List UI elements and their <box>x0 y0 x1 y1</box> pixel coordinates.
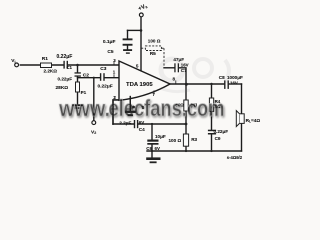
svg-text:2.2KΩ: 2.2KΩ <box>44 68 58 73</box>
svg-text:6: 6 <box>142 105 145 110</box>
svg-text:10μF: 10μF <box>155 134 166 139</box>
svg-text:16V: 16V <box>230 81 238 86</box>
svg-text:C8: C8 <box>219 75 225 80</box>
svg-text:C4: C4 <box>139 127 145 132</box>
svg-text:R5: R5 <box>150 51 156 57</box>
svg-text:C5: C5 <box>107 49 113 55</box>
svg-text:0.22μF: 0.22μF <box>98 84 113 90</box>
svg-text:C2: C2 <box>83 72 89 78</box>
svg-text:100 Ω: 100 Ω <box>169 138 182 143</box>
svg-text:0.22μF: 0.22μF <box>214 129 229 134</box>
svg-text:C3: C3 <box>100 66 106 72</box>
svg-text:www.: www. <box>58 96 110 121</box>
svg-text:0.1μF: 0.1μF <box>103 39 116 45</box>
svg-text:R3: R3 <box>191 137 197 142</box>
svg-text:V2: V2 <box>91 129 96 135</box>
svg-text:Vi: Vi <box>11 58 15 64</box>
svg-text:100 Ω: 100 Ω <box>148 39 161 44</box>
svg-text:P1: P1 <box>81 90 87 95</box>
svg-text:s-4Ω9/2: s-4Ω9/2 <box>227 155 243 160</box>
svg-text:TDA 1905: TDA 1905 <box>126 82 153 88</box>
svg-text:5: 5 <box>136 63 139 68</box>
svg-text:C9: C9 <box>215 136 221 141</box>
svg-text:R1: R1 <box>42 56 48 62</box>
svg-text:C6: C6 <box>146 146 152 151</box>
svg-text:28KΩ: 28KΩ <box>56 85 69 91</box>
svg-text:RL=4Ω: RL=4Ω <box>246 118 261 124</box>
svg-text:0.22μF: 0.22μF <box>57 54 73 60</box>
svg-text:elecfans.com: elecfans.com <box>109 95 225 121</box>
svg-text:C1: C1 <box>66 65 72 70</box>
svg-text:6V: 6V <box>155 146 160 151</box>
svg-text:0.22μF: 0.22μF <box>58 77 73 82</box>
